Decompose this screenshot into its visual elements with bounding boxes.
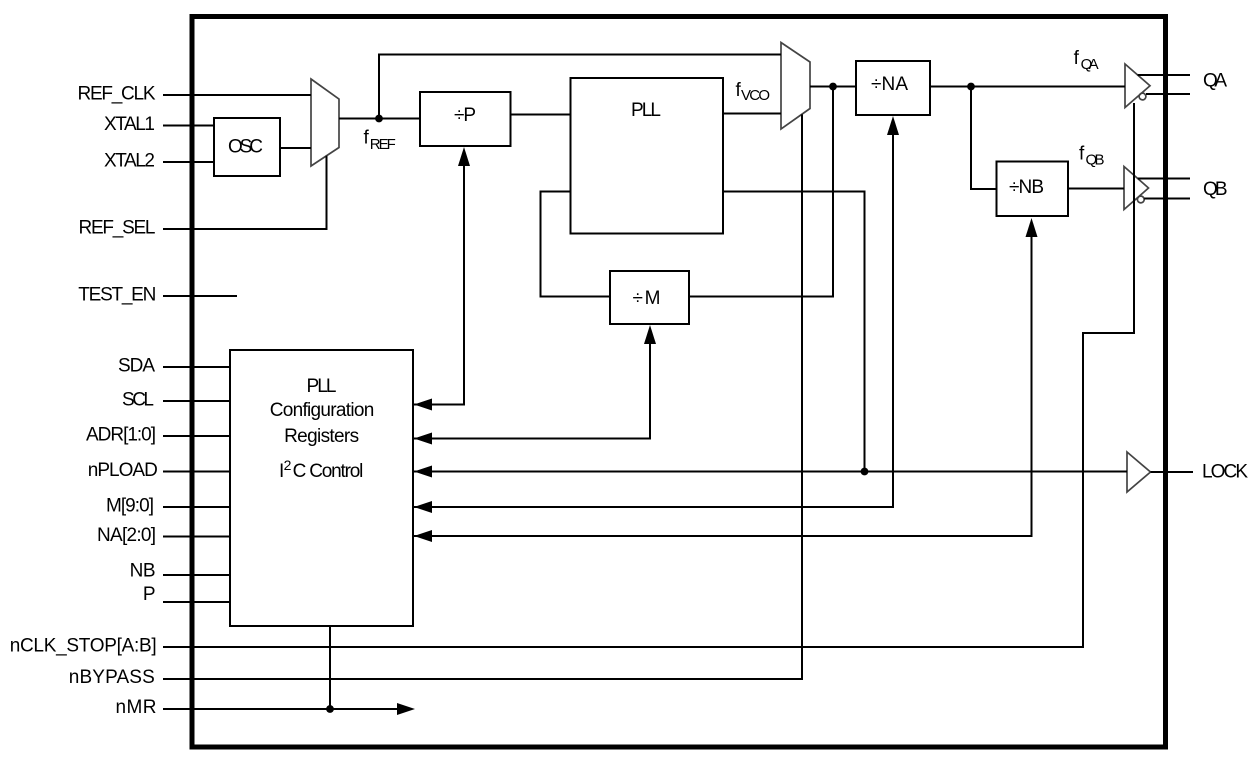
wire REF_CLK input bbox=[163, 94, 311, 96]
svg-text:PLL: PLL bbox=[307, 376, 337, 397]
box divider NB bbox=[997, 162, 1069, 217]
inversion bubble QB bbox=[1137, 196, 1144, 203]
wire PLL lock output bbox=[723, 192, 865, 472]
wire nBYPASS to mux U2 select bbox=[163, 114, 802, 679]
wire LOCK row to buffer and config registers bbox=[414, 471, 1127, 473]
arrowhead into divider NB bbox=[1026, 218, 1038, 237]
svg-text:nBYPASS: nBYPASS bbox=[69, 667, 155, 688]
arrowhead into config from P control bbox=[414, 399, 432, 411]
arrowhead nMR distribution bbox=[397, 703, 415, 715]
svg-text:XTAL1: XTAL1 bbox=[104, 114, 155, 135]
wire REF_SEL to mux U1 select bbox=[163, 156, 327, 229]
wire config registers to nMR node bbox=[329, 626, 331, 709]
wire QA output complement bbox=[1146, 93, 1190, 95]
arrowhead into divider NA bbox=[887, 116, 899, 135]
wire OSC output to mux U1 bbox=[280, 147, 311, 149]
box PLL bbox=[571, 78, 724, 234]
svg-text:XTAL2: XTAL2 bbox=[104, 151, 155, 172]
svg-text:nPLOAD: nPLOAD bbox=[88, 460, 158, 481]
svg-text:Configuration: Configuration bbox=[270, 400, 375, 421]
mux U2 bypass select bbox=[781, 43, 810, 130]
box OSC bbox=[214, 118, 280, 176]
svg-text:REF_SEL: REF_SEL bbox=[79, 218, 156, 239]
wire PLL output fVCO to mux U2 bbox=[723, 113, 781, 115]
svg-text:P: P bbox=[143, 584, 156, 605]
arrowhead into config from M control bbox=[414, 433, 432, 445]
wire VCO node to divider M feedback bbox=[689, 87, 833, 297]
buffer QB bbox=[1124, 167, 1149, 210]
wire M[9:0] input bbox=[163, 506, 230, 508]
wire config registers to divider M control bbox=[414, 338, 650, 439]
svg-text:NB: NB bbox=[130, 561, 156, 582]
svg-text:VCO: VCO bbox=[741, 87, 770, 104]
wire QB output true bbox=[1138, 178, 1190, 180]
wire fREF bypass feedback to mux U2 bbox=[379, 55, 781, 119]
wire ADR[1:0] input bbox=[163, 435, 230, 437]
wire divider M output to PLL feedback input bbox=[541, 192, 611, 297]
svg-text:REF_CLK: REF_CLK bbox=[78, 84, 156, 105]
svg-text:PLL: PLL bbox=[631, 100, 661, 121]
svg-text:f: f bbox=[364, 128, 370, 149]
buffer LOCK bbox=[1127, 452, 1151, 492]
svg-text:C Control: C Control bbox=[293, 461, 364, 482]
svg-text:nMR: nMR bbox=[116, 697, 157, 718]
wire SCL input bbox=[163, 400, 230, 402]
junction node fREF bbox=[375, 115, 383, 123]
svg-text:REF: REF bbox=[370, 136, 396, 153]
svg-text:OSC: OSC bbox=[228, 137, 263, 158]
wire config registers to divider P control bbox=[414, 160, 464, 405]
wire divider NA output to buffer QA bbox=[930, 86, 1125, 88]
svg-text:f: f bbox=[1079, 144, 1085, 165]
wire NB input bbox=[163, 574, 230, 576]
box divider P bbox=[420, 92, 511, 146]
wire node to divider NB bbox=[971, 87, 997, 190]
mux U1 reference select bbox=[311, 79, 339, 166]
wire nPLOAD input bbox=[163, 471, 230, 473]
chip outline border bbox=[192, 17, 1166, 748]
svg-text:÷P: ÷P bbox=[454, 105, 476, 126]
wire TEST_EN stub bbox=[163, 295, 237, 297]
arrowhead into divider P bbox=[458, 147, 470, 166]
junction node VCO output bbox=[829, 83, 837, 91]
box PLL Configuration Registers I2C Control bbox=[230, 350, 413, 626]
arrowhead into divider M bbox=[644, 325, 656, 344]
arrowhead into config from LOCK bbox=[414, 466, 432, 478]
junction node LOCK bbox=[861, 468, 869, 476]
buffer QA bbox=[1125, 64, 1150, 108]
wire nCLK_STOP[A:B] to output buffers enable bbox=[163, 103, 1134, 647]
svg-text:f: f bbox=[1074, 48, 1080, 69]
wire QB output complement bbox=[1144, 198, 1190, 200]
arrowhead into config from NB control bbox=[414, 530, 432, 542]
wire config registers to divider NA control bbox=[414, 129, 893, 507]
svg-text:ADR[1:0]: ADR[1:0] bbox=[86, 425, 156, 446]
wire XTAL1 input bbox=[163, 125, 214, 127]
wire divider NB output to buffer QB bbox=[1068, 188, 1124, 190]
box divider M bbox=[610, 271, 689, 324]
box divider NA bbox=[856, 61, 930, 115]
svg-text:QB: QB bbox=[1203, 179, 1228, 200]
wire LOCK buffer output bbox=[1151, 471, 1194, 473]
wire QA output true bbox=[1138, 74, 1190, 76]
svg-text:QA: QA bbox=[1203, 71, 1227, 92]
svg-text:2: 2 bbox=[284, 457, 292, 473]
wire nMR input bbox=[163, 708, 400, 710]
wire NA[2:0] input bbox=[163, 536, 230, 538]
svg-text:÷NB: ÷NB bbox=[1009, 177, 1044, 198]
wire config registers to divider NB control bbox=[414, 231, 1032, 536]
svg-text:Registers: Registers bbox=[284, 426, 359, 447]
svg-text:LOCK: LOCK bbox=[1202, 462, 1248, 483]
svg-text:QA: QA bbox=[1081, 56, 1099, 73]
svg-text:÷M: ÷M bbox=[633, 288, 661, 309]
wire divider P output to PLL bbox=[511, 114, 571, 116]
arrowhead into config from NA control bbox=[414, 501, 432, 513]
wire XTAL2 input bbox=[163, 161, 214, 163]
inversion bubble QA bbox=[1139, 93, 1146, 100]
wire SDA input bbox=[163, 366, 230, 368]
svg-text:QB: QB bbox=[1086, 152, 1105, 169]
wire mux U1 output fREF bbox=[339, 118, 420, 120]
svg-text:÷NA: ÷NA bbox=[871, 74, 908, 95]
svg-text:TEST_EN: TEST_EN bbox=[78, 285, 156, 306]
svg-text:SCL: SCL bbox=[122, 390, 154, 411]
wire P input bbox=[163, 601, 230, 603]
junction node nMR bbox=[326, 705, 334, 713]
svg-text:NA[2:0]: NA[2:0] bbox=[97, 525, 156, 546]
svg-text:nCLK_STOP[A:B]: nCLK_STOP[A:B] bbox=[10, 636, 157, 657]
svg-text:SDA: SDA bbox=[118, 356, 155, 377]
wire mux U2 output to divider NA bbox=[810, 86, 856, 88]
svg-text:M[9:0]: M[9:0] bbox=[106, 496, 154, 517]
junction node QA branch bbox=[967, 83, 975, 91]
